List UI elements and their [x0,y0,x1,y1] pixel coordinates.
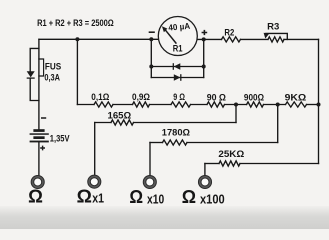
wire 165 line right [134,122,237,124]
wire [150,104,172,106]
terminal ohm x1 [88,175,101,188]
wire 25K line right [240,163,319,165]
resistor 1780 ohm [163,140,188,145]
fuse FUS 0,3A [39,59,44,76]
resistor 25K ohm [219,161,240,166]
junction node top-left [75,37,79,41]
svg-text:Ω: Ω [77,186,92,206]
svg-text:9 Ω: 9 Ω [173,92,185,102]
wire diode bottom rail [151,77,203,79]
terminal ohm x100 [198,175,211,188]
svg-text:0,9Ω: 0,9Ω [132,92,150,102]
wire R3 to right rail [284,38,319,40]
svg-text:165Ω: 165Ω [108,110,132,120]
wire left rail vertical [76,39,78,104]
wire right rail vertical [318,39,320,163]
wire 165 line left [95,122,111,124]
resistor 90 ohm [207,102,225,107]
svg-text:Ω: Ω [182,187,196,207]
wire top horizontal from left corner to meter minus [39,38,159,40]
svg-text:R2: R2 [224,28,234,38]
svg-text:R1: R1 [173,44,183,54]
svg-text:x1: x1 [92,191,104,206]
R3 wiper bar [266,33,288,39]
svg-text:FUS: FUS [45,62,61,72]
svg-text:25KΩ: 25KΩ [218,149,244,159]
wire x10 terminal vertical [149,143,151,176]
wire meter plus to R2 [197,38,221,40]
wire [113,104,133,106]
svg-text:9KΩ: 9KΩ [285,93,307,103]
terminal ohm x10 [143,175,156,188]
wire tap 1780 junction vertical [277,105,279,143]
meter needle arrowhead [162,26,168,32]
svg-text:x100: x100 [200,191,225,206]
wire R2 to R3 [241,38,269,40]
svg-text:Ω: Ω [129,187,143,207]
wire [264,104,286,106]
R3 wiper arrow [264,33,270,39]
junction node diode rail left [149,65,153,69]
resistor 0,1 ohm [94,102,113,107]
wire main rail segment 1 [77,104,94,106]
wire battery to terminal [38,143,40,176]
junction node rail-1780 [276,103,280,107]
wire meter right vertical [203,39,205,77]
label plus [202,30,208,35]
resistor 9 ohm [171,102,191,107]
svg-text:1780Ω: 1780Ω [162,127,190,137]
junction node meter minus [149,37,153,41]
wire [191,104,208,106]
svg-text:x10: x10 [147,191,164,206]
wire x1 terminal vertical [94,123,96,176]
wire 25K line left [205,163,219,165]
wire [307,104,319,106]
label minus [149,31,155,33]
wire 1780 line left [150,142,163,144]
resistor R3 [268,37,284,42]
wire x100 terminal vertical [204,164,206,176]
wire 1780 line right [187,142,278,144]
meter needle [165,30,176,44]
diode D3 (left branch, pointing down) [27,71,35,77]
meter M1 circle [158,17,197,56]
junction node meter plus [202,37,206,41]
resistor 0,9 ohm [133,102,150,107]
diode D1 (top, pointing left) [174,63,181,70]
svg-text:1,35V: 1,35V [50,134,70,144]
svg-text:R1 + R2 + R3 = 2500Ω: R1 + R2 + R3 = 2500Ω [37,18,114,28]
wire tap 165 junction vertical [235,105,237,123]
svg-text:40 µA: 40 µA [168,21,191,33]
wire diode branch [30,48,39,100]
battery plus sign [40,146,45,151]
battery minus sign [41,117,46,119]
wire [225,104,247,106]
junction node rail-right [317,103,321,107]
junction node rail-165 [234,103,238,107]
diode D2 (bottom, pointing right) [174,74,181,81]
resistor 900 ohm [247,102,264,107]
resistor 165 ohm [111,120,134,125]
svg-text:Ω: Ω [28,186,43,206]
wire diode top rail [151,66,203,68]
svg-text:90 Ω: 90 Ω [207,93,226,103]
svg-text:R3: R3 [267,21,279,31]
battery B1 1,35V plates [33,129,44,132]
svg-text:0,3A: 0,3A [44,72,60,82]
svg-text:900Ω: 900Ω [244,93,264,103]
wire meter left vertical [150,39,152,77]
junction node diode rail right [202,65,206,69]
wire left column vertical (fuse branch) [38,39,40,129]
resistor R2 [222,37,241,42]
terminal ohm [31,175,44,188]
svg-text:0,1Ω: 0,1Ω [91,92,109,102]
resistor 9K ohm [286,102,307,107]
